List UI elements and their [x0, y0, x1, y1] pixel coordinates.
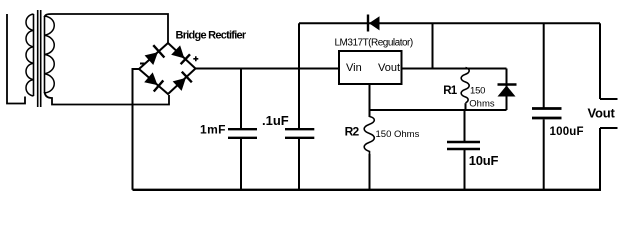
- svg-text:.1uF: .1uF: [262, 113, 289, 128]
- svg-text:10uF: 10uF: [469, 153, 499, 168]
- svg-text:Vout: Vout: [378, 62, 400, 74]
- svg-text:Vout: Vout: [588, 106, 616, 121]
- svg-text:150: 150: [470, 85, 485, 96]
- svg-text:R1: R1: [443, 85, 458, 97]
- svg-text:Bridge Rectifier: Bridge Rectifier: [176, 30, 247, 42]
- svg-text:R2: R2: [345, 124, 360, 138]
- svg-text:LM317T(Regulator): LM317T(Regulator): [335, 37, 413, 48]
- svg-text:1mF: 1mF: [200, 123, 226, 137]
- svg-text:100uF: 100uF: [550, 126, 584, 138]
- svg-text:Ohms: Ohms: [469, 99, 495, 110]
- svg-text:150 Ohms: 150 Ohms: [376, 129, 420, 140]
- svg-text:Vin: Vin: [346, 62, 362, 74]
